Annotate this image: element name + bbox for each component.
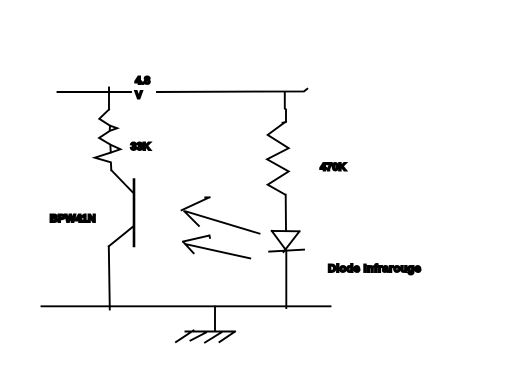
ground stem — [214, 306, 216, 331]
wire: resistor R2 down to diode D1 — [285, 195, 287, 230]
resistor R1 33K (zigzag with two small loops) — [95, 110, 121, 171]
ground hatch 1 — [176, 331, 194, 343]
svg-text:4.8: 4.8 — [135, 75, 150, 87]
node A: junction of left branch with top rail (tick above rail) — [108, 88, 110, 93]
ground — [176, 306, 235, 342]
wire: bottom ground rail — [42, 305, 331, 307]
ground hatch 3 — [205, 332, 222, 342]
svg-text:V: V — [135, 90, 143, 102]
collector lead diagonal — [111, 170, 133, 193]
ground hatch 4 — [220, 332, 236, 342]
svg-text:470K: 470K — [320, 161, 346, 173]
ground bar — [186, 331, 235, 333]
wire: top rail down to resistor R2 (with jog) — [285, 92, 286, 122]
IR ray arrow 2 (lower, pointing at Q1) — [183, 236, 250, 259]
svg-text:33K: 33K — [131, 141, 151, 153]
transistor Q1 BPW41N phototransistor — [109, 170, 134, 246]
resistor R2 470K (zigzag) — [267, 122, 289, 195]
wire: diode D1 down to ground rail — [285, 251, 287, 309]
ground hatch 2 — [191, 333, 207, 341]
base bar — [133, 180, 136, 247]
wire: top supply rail (+4.8V net), left segment — [58, 91, 132, 93]
IR ray arrow 1 (upper, pointing at Q1) — [182, 197, 260, 233]
emitter lead diagonal — [109, 227, 133, 247]
diode D1 infrared LED (triangle + cathode bar) — [269, 231, 304, 252]
svg-text:Diode Infrarouge: Diode Infrarouge — [328, 263, 421, 275]
wire: top supply rail (+4.8V net), right segment — [157, 89, 307, 92]
svg-text:BPW41N: BPW41N — [50, 213, 96, 225]
wire: top rail junction down to resistor R1 — [108, 92, 110, 110]
wire: emitter down to ground rail — [109, 246, 110, 309]
